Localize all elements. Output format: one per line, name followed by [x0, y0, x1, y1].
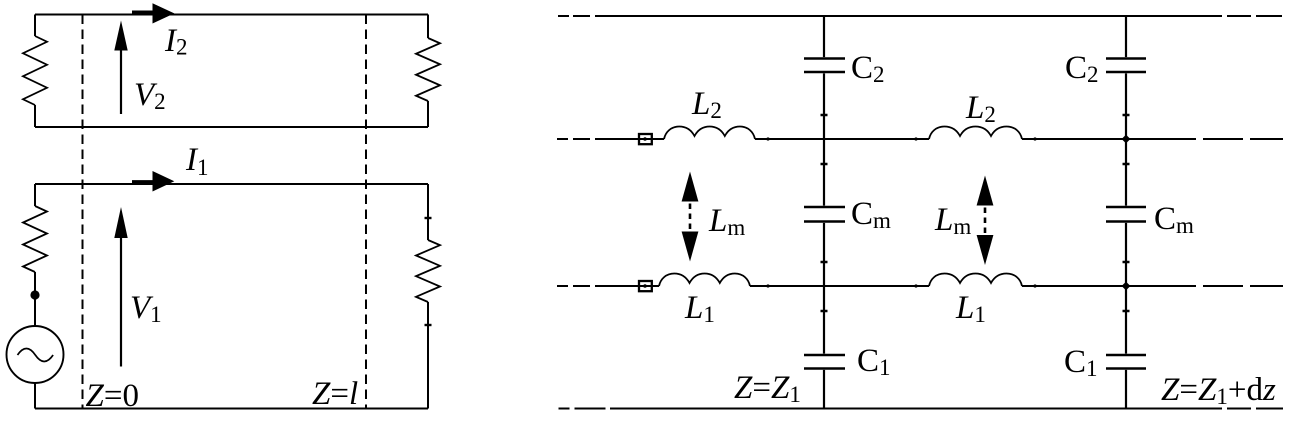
wire top of lower-left loop — [35, 183, 428, 185]
capacitor C1 branch 2 plates — [1106, 355, 1146, 369]
wire bottom conductor (dash ends) — [559, 408, 1284, 410]
voltage arrow V2 shaft — [120, 49, 122, 115]
inductor L2 section 2 — [929, 127, 1022, 140]
wire bottom of upper-left loop — [35, 126, 428, 128]
capacitor Cm branch 1 plates — [804, 207, 845, 222]
wire vertical branch 2 — [1125, 16, 1127, 409]
svg-text:Z=l: Z=l — [312, 376, 358, 412]
wire from resistor to source — [34, 272, 36, 326]
wire upper-left vertical above resistor — [34, 15, 36, 37]
sine symbol — [18, 349, 54, 362]
joint dot L2 line c — [1033, 137, 1036, 140]
wire line-2 conductor (L2 row) — [557, 138, 1283, 140]
wire top of upper-left loop — [35, 14, 428, 16]
wire below right resistor of lower loop — [427, 302, 429, 409]
wire upper-right vertical above resistor — [427, 15, 429, 39]
wire below right resistor of upper loop — [427, 101, 429, 127]
joint dot L2 line b — [914, 137, 917, 140]
svg-text:Z=0: Z=0 — [86, 378, 139, 414]
mutual arrow 1 down head — [682, 232, 699, 262]
wire below source — [34, 383, 36, 409]
capacitor C1 branch 1 plates — [804, 355, 845, 369]
inductor L1 section 2 — [929, 274, 1022, 287]
terminal square on L2 line — [639, 134, 652, 144]
dashed line Z=l — [365, 15, 367, 409]
tick joint lower right branch — [425, 324, 432, 326]
dashed line Z=0 — [82, 15, 84, 409]
terminal dot L2 — [643, 137, 647, 141]
mutual arrow 2 up head — [977, 176, 994, 206]
source circle — [7, 326, 64, 383]
wire vertical branch 1 — [823, 16, 825, 409]
node dot at source — [30, 290, 39, 299]
joint dot L1 line b — [914, 284, 917, 287]
joint dot L1 line a — [766, 284, 769, 287]
wire top conductor (dash ends) — [558, 15, 1282, 17]
mutual arrow 1 dashed shaft — [689, 204, 692, 232]
voltage arrow V1 shaft — [120, 236, 122, 367]
mutual arrow 1 up head — [682, 172, 699, 202]
wire below left resistor of upper loop — [34, 105, 36, 127]
capacitor C2 branch 1 plates — [804, 59, 845, 73]
arrowhead V1 — [114, 207, 127, 238]
inductor L2 section 1 — [664, 127, 755, 140]
capacitor Cm branch 2 plates — [1106, 207, 1146, 222]
arrowhead V2 — [114, 21, 127, 51]
terminal square on L1 line — [639, 281, 652, 291]
tick joints on branch 1 — [821, 115, 828, 311]
junction node on L2 at branch 2 — [1122, 135, 1131, 144]
tick joints on branch 2 — [1123, 115, 1130, 311]
resistor (lower loop, left) — [23, 206, 47, 272]
capacitor C2 branch 2 plates — [1106, 59, 1146, 73]
current arrow I1 tail — [132, 180, 154, 183]
current arrow I2 tail — [132, 11, 154, 14]
arrowhead I1 — [153, 171, 175, 192]
arrowhead I2 — [153, 3, 175, 23]
resistor (upper loop, right) — [416, 38, 440, 101]
wire bottom of lower-left loop — [35, 408, 428, 410]
resistor (lower loop, right) — [416, 240, 440, 302]
junction node on L1 at branch 2 — [1122, 282, 1131, 291]
wire lower-right vertical above resistor — [427, 184, 429, 240]
wire lower-left vertical above resistor — [34, 184, 36, 206]
wire line-1 conductor (L1 row) — [557, 285, 1283, 287]
joint dot L2 line a — [766, 137, 769, 140]
mutual arrow 2 dashed shaft — [984, 208, 987, 236]
tick joint upper right branch — [425, 217, 432, 219]
terminal dot L1 — [643, 284, 647, 288]
resistor (upper loop, left) — [23, 36, 47, 105]
mutual arrow 2 down head — [977, 235, 994, 265]
inductor L1 section 1 — [659, 274, 750, 287]
joint dot L1 line c — [1033, 284, 1036, 287]
